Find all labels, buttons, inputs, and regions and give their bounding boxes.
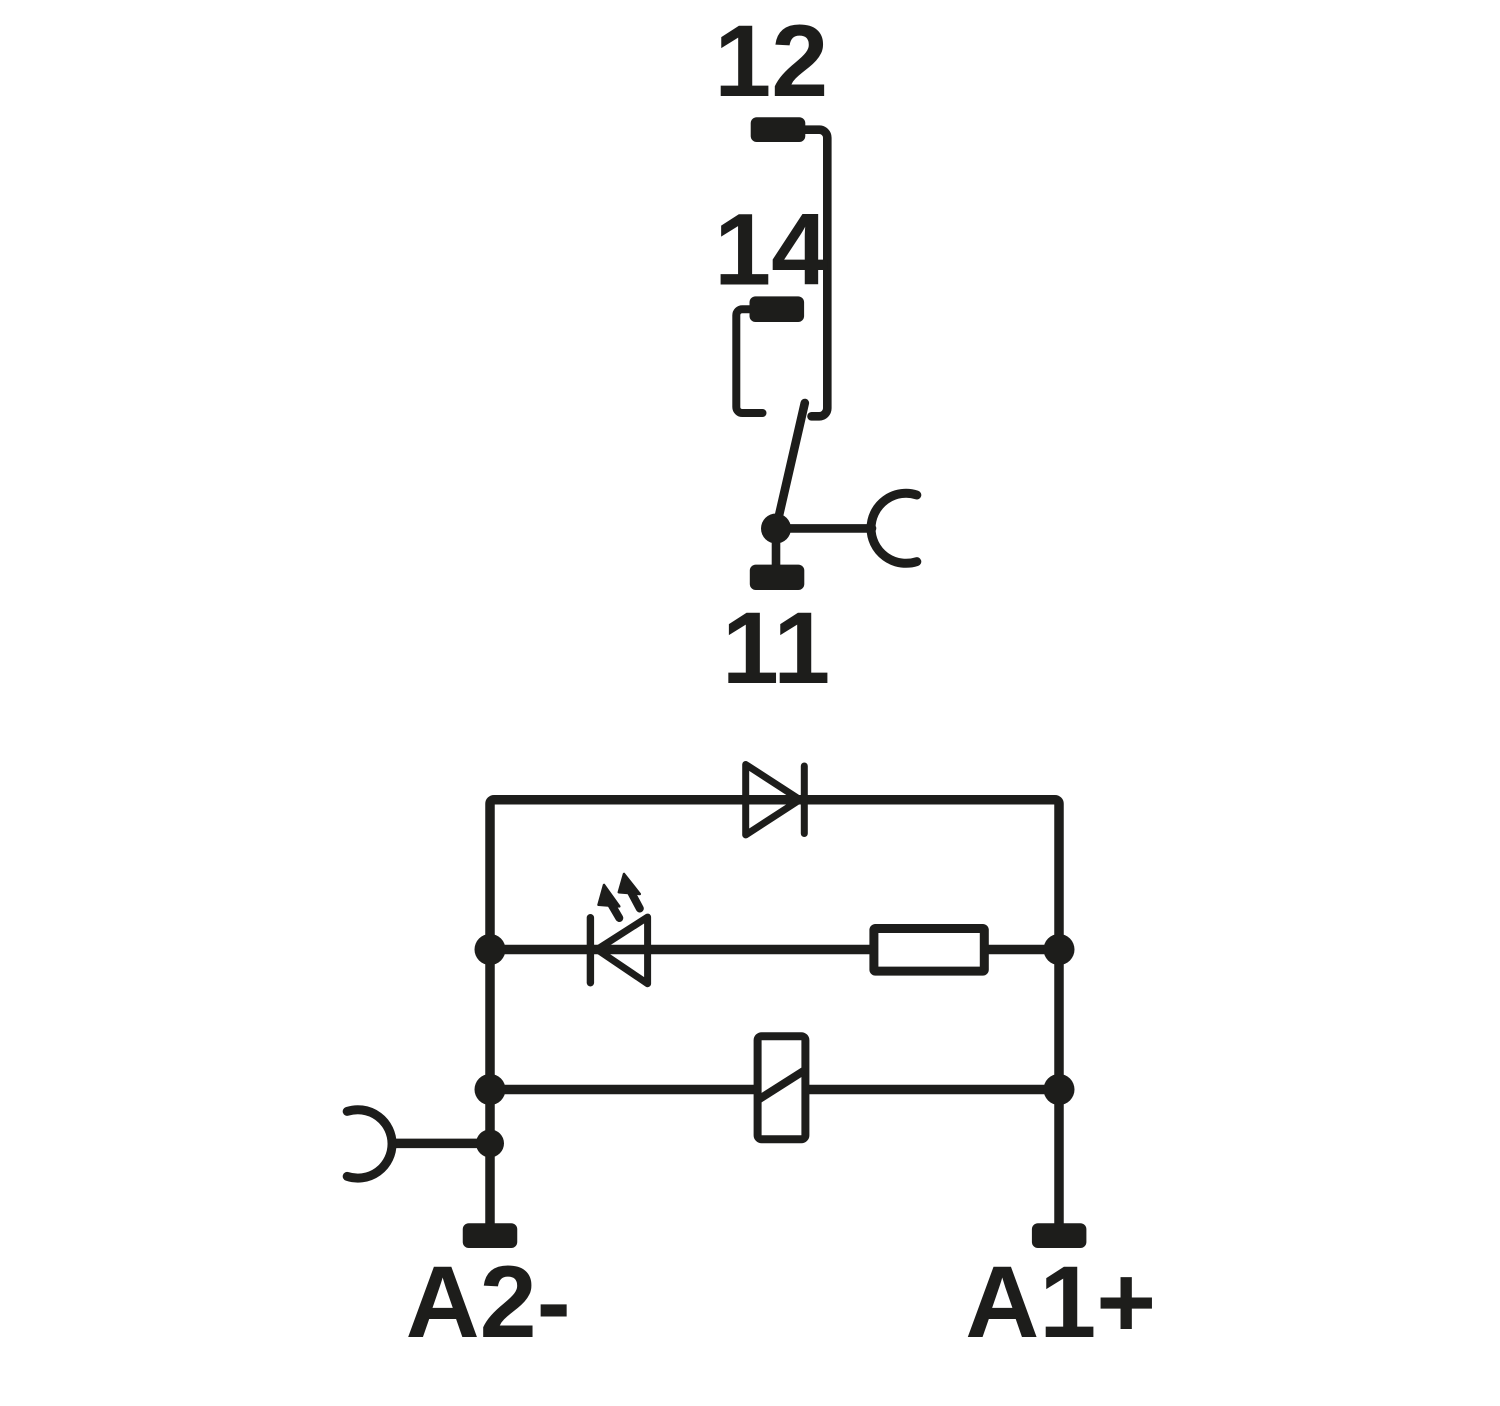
- svg-text:14: 14: [714, 192, 828, 307]
- svg-text:A2-: A2-: [406, 1244, 571, 1359]
- svg-text:12: 12: [714, 3, 828, 118]
- svg-text:A1+: A1+: [965, 1244, 1156, 1359]
- svg-text:11: 11: [722, 590, 830, 705]
